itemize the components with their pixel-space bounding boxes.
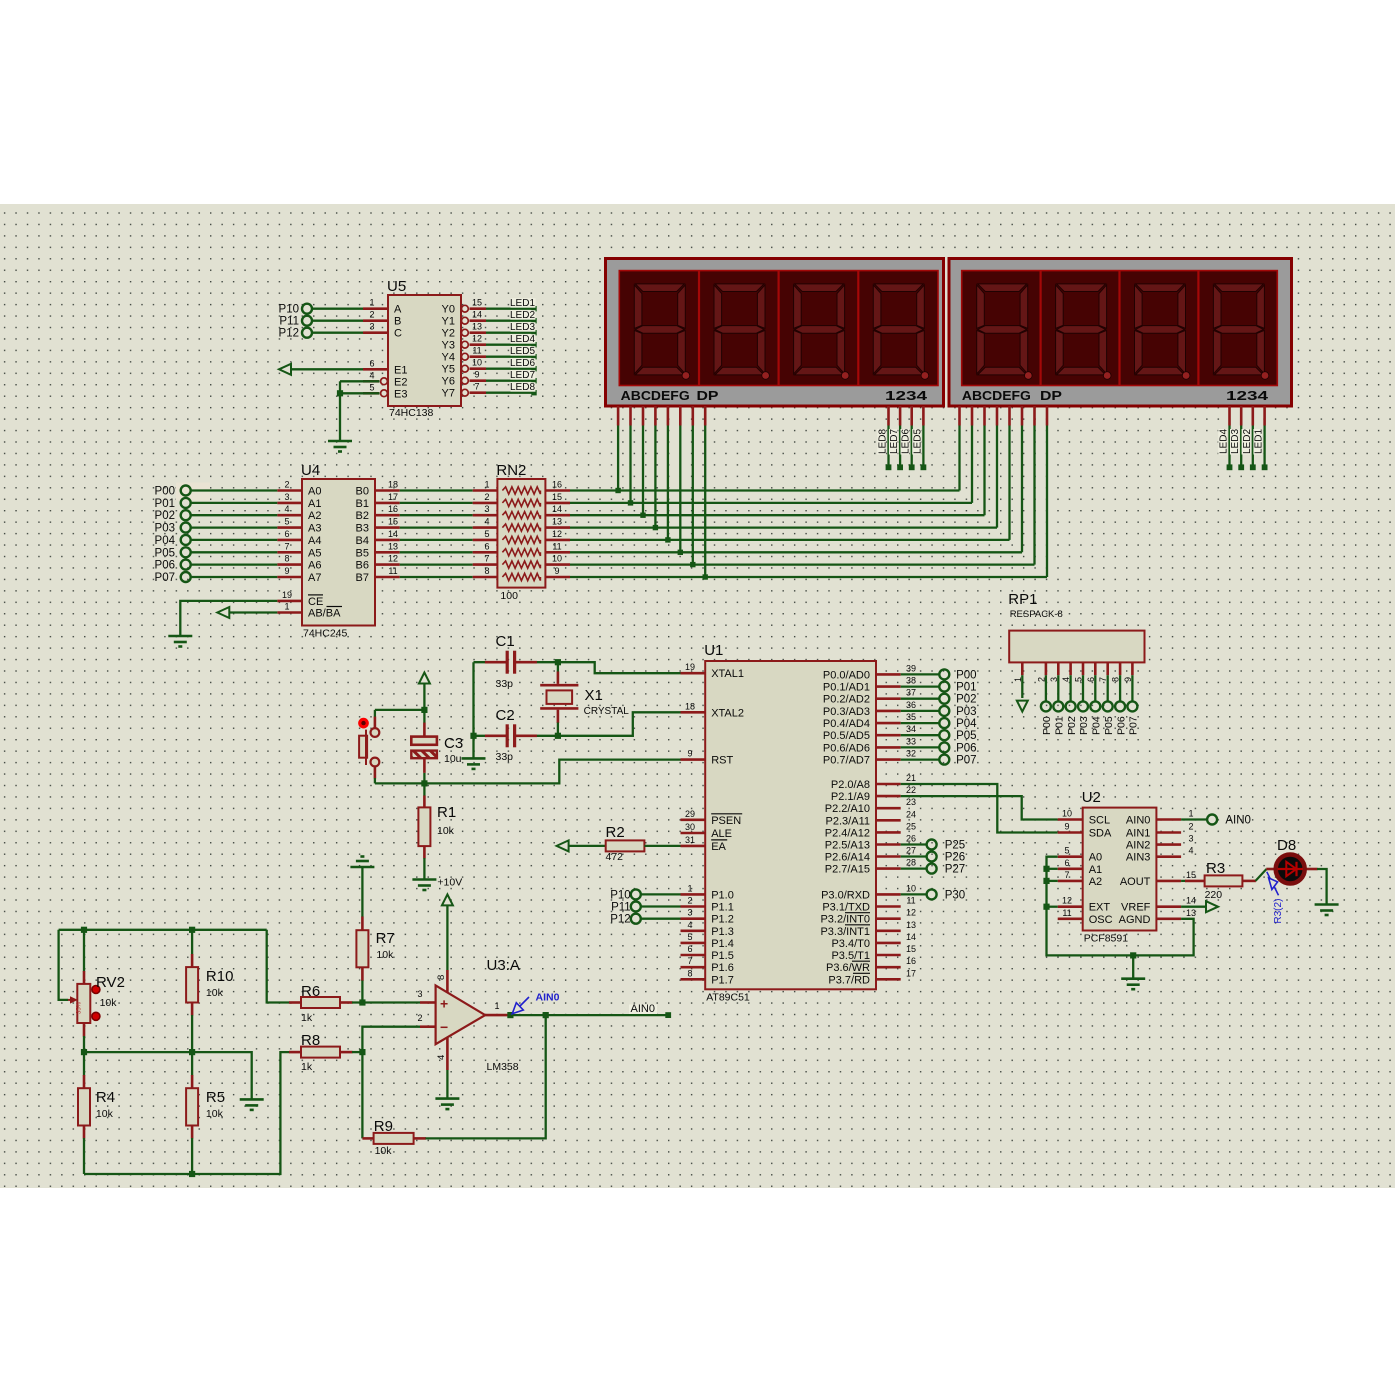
svg-text:P2.2/A10: P2.2/A10 <box>825 803 870 815</box>
svg-text:A2: A2 <box>1089 876 1102 888</box>
svg-text:B3: B3 <box>356 523 369 535</box>
svg-text:35: 35 <box>906 712 916 722</box>
svg-text:P03: P03 <box>1078 716 1090 735</box>
svg-text:6: 6 <box>687 944 692 954</box>
svg-text:P3.0/RXD: P3.0/RXD <box>821 889 870 901</box>
svg-text:P01: P01 <box>155 498 175 510</box>
svg-text:33p: 33p <box>496 678 514 690</box>
svg-text:A7: A7 <box>308 572 321 584</box>
svg-text:10k: 10k <box>206 987 224 999</box>
svg-text:33: 33 <box>906 736 916 746</box>
svg-text:26: 26 <box>906 834 916 844</box>
svg-text:1: 1 <box>284 602 289 612</box>
svg-text:R7: R7 <box>376 930 395 947</box>
svg-text:18: 18 <box>388 480 398 490</box>
svg-text:AIN0: AIN0 <box>631 1003 655 1015</box>
svg-text:P06: P06 <box>956 742 976 754</box>
svg-text:C3: C3 <box>444 735 463 752</box>
svg-text:PSEN: PSEN <box>711 815 741 827</box>
svg-text:P2.7/A15: P2.7/A15 <box>825 864 870 876</box>
svg-text:10k: 10k <box>96 1108 114 1120</box>
svg-text:RP1: RP1 <box>1008 591 1037 608</box>
svg-text:AB/BA: AB/BA <box>308 608 341 620</box>
svg-text:29: 29 <box>685 809 695 819</box>
svg-text:R5: R5 <box>206 1089 225 1106</box>
svg-text:E1: E1 <box>394 364 407 376</box>
svg-text:R1: R1 <box>437 804 456 821</box>
svg-text:P0.0/AD0: P0.0/AD0 <box>823 669 870 681</box>
svg-text:P3.3/INT1: P3.3/INT1 <box>820 926 870 938</box>
svg-text:E2: E2 <box>394 376 407 388</box>
svg-text:P05: P05 <box>956 730 976 742</box>
svg-text:RN2: RN2 <box>496 462 526 479</box>
svg-text:P07: P07 <box>956 755 976 767</box>
svg-text:Y6: Y6 <box>442 376 455 388</box>
svg-text:AIN2: AIN2 <box>1126 840 1150 852</box>
svg-text:14: 14 <box>472 310 482 320</box>
svg-text:P07: P07 <box>1128 716 1140 735</box>
svg-text:P07: P07 <box>155 572 175 584</box>
svg-text:6: 6 <box>369 358 374 368</box>
svg-text:A3: A3 <box>308 523 321 535</box>
svg-text:C2: C2 <box>496 707 515 724</box>
svg-text:13: 13 <box>388 541 398 551</box>
svg-text:P12: P12 <box>279 328 299 340</box>
svg-text:10: 10 <box>472 358 482 368</box>
svg-text:28: 28 <box>906 858 916 868</box>
svg-text:DP: DP <box>1040 388 1062 403</box>
svg-text:P0.1/AD1: P0.1/AD1 <box>823 682 870 694</box>
svg-text:10k: 10k <box>376 949 394 961</box>
svg-text:8: 8 <box>436 975 447 980</box>
svg-text:P27: P27 <box>945 864 965 876</box>
svg-text:3: 3 <box>687 908 692 918</box>
svg-text:R3(2): R3(2) <box>1273 899 1284 924</box>
svg-text:P1.5: P1.5 <box>711 950 734 962</box>
svg-text:7: 7 <box>284 541 289 551</box>
svg-text:9: 9 <box>1064 822 1069 832</box>
svg-text:1234: 1234 <box>885 388 928 403</box>
svg-text:LED1: LED1 <box>510 298 535 309</box>
svg-text:5: 5 <box>284 517 289 527</box>
svg-text:14: 14 <box>1186 896 1196 906</box>
svg-text:U5: U5 <box>387 278 406 295</box>
svg-text:Y2: Y2 <box>442 328 455 340</box>
svg-text:B5: B5 <box>356 547 369 559</box>
svg-text:4: 4 <box>284 504 289 514</box>
svg-text:SCL: SCL <box>1089 815 1110 827</box>
svg-text:LED1: LED1 <box>1254 429 1265 454</box>
svg-text:AIN1: AIN1 <box>1126 828 1150 840</box>
svg-text:P10: P10 <box>279 304 299 316</box>
svg-text:74HC138: 74HC138 <box>389 407 434 419</box>
svg-text:15: 15 <box>906 944 916 954</box>
svg-text:5: 5 <box>687 932 692 942</box>
svg-text:P11: P11 <box>611 902 631 914</box>
svg-text:P04: P04 <box>155 535 176 547</box>
svg-text:P2.6/A14: P2.6/A14 <box>825 852 870 864</box>
svg-text:1k: 1k <box>301 1061 313 1073</box>
svg-text:3: 3 <box>369 322 374 332</box>
svg-text:36: 36 <box>906 700 916 710</box>
svg-text:1: 1 <box>494 1001 499 1011</box>
svg-text:4: 4 <box>436 1055 447 1060</box>
svg-text:LED8: LED8 <box>878 429 889 454</box>
svg-text:P02: P02 <box>1066 716 1078 735</box>
svg-text:R8: R8 <box>301 1032 320 1049</box>
svg-text:10k: 10k <box>100 997 118 1009</box>
svg-text:AIN0: AIN0 <box>1225 815 1251 827</box>
svg-text:AGND: AGND <box>1119 914 1151 926</box>
svg-text:B1: B1 <box>356 498 369 510</box>
svg-text:PCF8591: PCF8591 <box>1084 933 1129 945</box>
svg-text:P00: P00 <box>155 486 175 498</box>
svg-text:21: 21 <box>906 773 916 783</box>
svg-text:32: 32 <box>906 749 916 759</box>
svg-text:8: 8 <box>284 554 289 564</box>
svg-text:12: 12 <box>1062 896 1072 906</box>
svg-text:P04: P04 <box>1091 716 1103 735</box>
svg-text:10: 10 <box>552 554 562 564</box>
svg-text:P11: P11 <box>279 316 299 328</box>
svg-text:B7: B7 <box>356 572 369 584</box>
svg-text:4: 4 <box>369 370 374 380</box>
svg-text:P2.4/A12: P2.4/A12 <box>825 827 870 839</box>
svg-text:13: 13 <box>906 920 916 930</box>
svg-text:12: 12 <box>906 908 916 918</box>
svg-text:4: 4 <box>1188 846 1193 856</box>
svg-text:P1.3: P1.3 <box>711 926 734 938</box>
svg-text:11: 11 <box>1062 908 1071 918</box>
svg-text:10: 10 <box>906 883 916 893</box>
svg-text:P25: P25 <box>945 840 965 852</box>
svg-text:P02: P02 <box>155 510 175 522</box>
svg-text:P2.5/A13: P2.5/A13 <box>825 840 870 852</box>
svg-text:Y1: Y1 <box>442 316 455 328</box>
svg-text:Y0: Y0 <box>442 304 455 316</box>
svg-text:R4: R4 <box>96 1089 115 1106</box>
svg-text:R6: R6 <box>301 983 320 1000</box>
svg-text:EXT: EXT <box>1089 902 1111 914</box>
svg-text:10k: 10k <box>437 825 455 837</box>
svg-text:P0.3/AD3: P0.3/AD3 <box>823 706 870 718</box>
svg-text:16: 16 <box>388 504 398 514</box>
svg-text:P01: P01 <box>956 682 976 694</box>
svg-text:P0.4/AD4: P0.4/AD4 <box>823 718 870 730</box>
svg-text:Y4: Y4 <box>442 352 455 364</box>
svg-text:P2.3/A11: P2.3/A11 <box>826 815 870 827</box>
svg-text:LED3: LED3 <box>1230 429 1241 454</box>
svg-text:13: 13 <box>472 322 482 332</box>
svg-text:A0: A0 <box>1089 852 1102 864</box>
svg-text:1: 1 <box>369 298 374 308</box>
svg-text:R10: R10 <box>206 968 234 985</box>
svg-text:U2: U2 <box>1082 789 1101 806</box>
svg-text:A0: A0 <box>308 486 321 498</box>
svg-text:P1.1: P1.1 <box>711 902 734 914</box>
svg-text:3: 3 <box>417 989 422 999</box>
svg-text:A1: A1 <box>308 498 321 510</box>
svg-text:472: 472 <box>606 851 624 863</box>
svg-text:LED7: LED7 <box>889 429 900 454</box>
svg-text:15: 15 <box>552 492 562 502</box>
svg-text:P1.7: P1.7 <box>711 974 734 986</box>
svg-text:U1: U1 <box>704 642 723 659</box>
svg-text:35%: 35% <box>77 1001 83 1014</box>
svg-text:4: 4 <box>687 920 692 930</box>
svg-text:15: 15 <box>388 517 398 527</box>
svg-text:XTAL2: XTAL2 <box>711 707 744 719</box>
svg-text:11: 11 <box>552 541 561 551</box>
svg-text:AT89C51: AT89C51 <box>706 992 750 1004</box>
svg-text:7: 7 <box>474 382 479 392</box>
svg-text:2: 2 <box>369 310 374 320</box>
svg-text:11: 11 <box>388 566 397 576</box>
svg-text:P3.1/TXD: P3.1/TXD <box>822 902 870 914</box>
svg-text:+10V: +10V <box>437 877 462 889</box>
svg-text:17: 17 <box>388 492 398 502</box>
svg-text:LED6: LED6 <box>510 358 535 369</box>
svg-text:LED7: LED7 <box>510 370 535 381</box>
svg-text:LM358: LM358 <box>487 1061 519 1073</box>
svg-text:220: 220 <box>1205 889 1223 901</box>
svg-text:3: 3 <box>1188 834 1193 844</box>
svg-text:LED4: LED4 <box>510 334 535 345</box>
svg-text:P03: P03 <box>155 523 175 535</box>
svg-text:22: 22 <box>906 785 916 795</box>
svg-text:P0.5/AD5: P0.5/AD5 <box>823 730 870 742</box>
svg-text:LED2: LED2 <box>510 310 535 321</box>
svg-text:P3.2/INT0: P3.2/INT0 <box>820 914 870 926</box>
svg-text:5: 5 <box>1064 846 1069 856</box>
svg-text:16: 16 <box>552 480 562 490</box>
svg-text:AOUT: AOUT <box>1120 876 1151 888</box>
svg-text:E3: E3 <box>394 388 407 400</box>
svg-text:27: 27 <box>906 846 916 856</box>
svg-text:LED3: LED3 <box>510 322 535 333</box>
svg-text:2: 2 <box>417 1013 422 1023</box>
svg-text:A5: A5 <box>308 547 321 559</box>
svg-text:RESPACK-8: RESPACK-8 <box>1010 609 1063 620</box>
svg-text:10: 10 <box>1062 809 1072 819</box>
svg-text:LED4: LED4 <box>1219 429 1230 454</box>
svg-text:P05: P05 <box>1103 716 1115 735</box>
svg-text:VREF: VREF <box>1121 902 1151 914</box>
svg-text:23: 23 <box>906 797 916 807</box>
svg-text:+: + <box>440 996 448 1012</box>
svg-text:Y7: Y7 <box>442 388 455 400</box>
svg-text:13: 13 <box>1186 908 1196 918</box>
svg-text:74HC245: 74HC245 <box>303 628 348 640</box>
svg-text:U3:A: U3:A <box>487 957 520 974</box>
svg-text:P3.4/T0: P3.4/T0 <box>831 938 870 950</box>
svg-text:6: 6 <box>284 529 289 539</box>
svg-text:12: 12 <box>552 529 562 539</box>
svg-text:P06: P06 <box>155 560 175 572</box>
svg-text:P2.0/A8: P2.0/A8 <box>831 779 870 791</box>
svg-text:R9: R9 <box>374 1118 393 1135</box>
svg-text:1234: 1234 <box>1226 388 1269 403</box>
svg-text:ALE: ALE <box>711 828 732 840</box>
svg-text:AIN0: AIN0 <box>536 992 560 1004</box>
svg-text:P3.5/T1: P3.5/T1 <box>831 950 870 962</box>
svg-text:LED8: LED8 <box>510 382 535 393</box>
svg-text:16: 16 <box>906 956 916 966</box>
svg-text:Y5: Y5 <box>442 364 455 376</box>
svg-text:P10: P10 <box>610 889 630 901</box>
svg-text:AIN0: AIN0 <box>1126 815 1150 827</box>
svg-text:14: 14 <box>552 504 562 514</box>
svg-text:P01: P01 <box>1054 716 1066 735</box>
svg-text:12: 12 <box>388 554 398 564</box>
svg-text:1: 1 <box>687 883 692 893</box>
svg-text:38: 38 <box>906 676 916 686</box>
svg-text:DP: DP <box>697 388 719 403</box>
svg-text:4: 4 <box>484 517 489 527</box>
svg-text:6: 6 <box>484 541 489 551</box>
svg-text:P2.1/A9: P2.1/A9 <box>831 791 870 803</box>
svg-text:P1.0: P1.0 <box>711 889 734 901</box>
svg-text:CE: CE <box>308 596 323 608</box>
svg-text:P00: P00 <box>956 669 976 681</box>
svg-text:SDA: SDA <box>1089 828 1112 840</box>
svg-text:6: 6 <box>1064 858 1069 868</box>
svg-text:31: 31 <box>685 835 695 845</box>
svg-text:11: 11 <box>906 896 915 906</box>
svg-text:25: 25 <box>906 821 916 831</box>
svg-text:C: C <box>394 328 402 340</box>
svg-text:AIN3: AIN3 <box>1126 852 1150 864</box>
svg-text:15: 15 <box>472 298 482 308</box>
svg-text:ABCDEFG: ABCDEFG <box>962 388 1031 403</box>
svg-text:14: 14 <box>388 529 398 539</box>
svg-text:R3: R3 <box>1206 860 1225 877</box>
svg-text:10k: 10k <box>375 1145 393 1157</box>
svg-text:39: 39 <box>906 663 916 673</box>
svg-text:3: 3 <box>284 492 289 502</box>
svg-text:9: 9 <box>474 370 479 380</box>
svg-text:A6: A6 <box>308 560 321 572</box>
svg-text:P3.6/WR: P3.6/WR <box>826 962 870 974</box>
svg-text:17: 17 <box>906 968 916 978</box>
svg-text:A4: A4 <box>308 535 321 547</box>
svg-text:18: 18 <box>685 701 695 711</box>
svg-text:10u: 10u <box>444 753 462 765</box>
svg-text:8: 8 <box>687 968 692 978</box>
svg-text:P00: P00 <box>1041 716 1053 735</box>
svg-text:X1: X1 <box>585 687 603 704</box>
svg-text:19: 19 <box>282 590 292 600</box>
svg-text:ABCDEFG: ABCDEFG <box>621 388 690 403</box>
svg-text:1k: 1k <box>301 1012 313 1024</box>
svg-text:9: 9 <box>554 566 559 576</box>
svg-text:D8: D8 <box>1277 837 1296 854</box>
svg-text:7: 7 <box>687 956 692 966</box>
svg-text:P12: P12 <box>610 914 630 926</box>
svg-text:7: 7 <box>484 554 489 564</box>
svg-text:OSC: OSC <box>1089 914 1113 926</box>
svg-text:30: 30 <box>685 822 695 832</box>
svg-text:P0.7/AD7: P0.7/AD7 <box>823 755 870 767</box>
svg-text:P0.6/AD6: P0.6/AD6 <box>823 742 870 754</box>
svg-text:5: 5 <box>484 529 489 539</box>
svg-text:LED5: LED5 <box>510 346 535 357</box>
svg-text:B0: B0 <box>356 486 369 498</box>
svg-text:RV2: RV2 <box>96 974 125 991</box>
svg-text:U4: U4 <box>301 462 320 479</box>
svg-text:XTAL1: XTAL1 <box>711 668 744 680</box>
svg-text:C1: C1 <box>496 633 515 650</box>
svg-text:19: 19 <box>685 662 695 672</box>
svg-text:P1.4: P1.4 <box>711 938 734 950</box>
svg-text:P1.2: P1.2 <box>711 914 734 926</box>
svg-text:7: 7 <box>1064 870 1069 880</box>
svg-text:B: B <box>394 316 401 328</box>
svg-text:2: 2 <box>484 492 489 502</box>
svg-text:P04: P04 <box>956 718 977 730</box>
svg-text:P3.7/RD: P3.7/RD <box>828 974 870 986</box>
svg-text:A: A <box>394 304 402 316</box>
svg-text:14: 14 <box>906 932 916 942</box>
svg-text:3: 3 <box>484 504 489 514</box>
svg-text:13: 13 <box>552 517 562 527</box>
svg-text:9: 9 <box>284 566 289 576</box>
svg-text:1: 1 <box>484 480 489 490</box>
svg-text:P30: P30 <box>945 889 965 901</box>
svg-text:5: 5 <box>369 382 374 392</box>
svg-text:10k: 10k <box>206 1108 224 1120</box>
svg-text:P1.6: P1.6 <box>711 962 734 974</box>
svg-text:12: 12 <box>472 334 482 344</box>
svg-text:2: 2 <box>284 480 289 490</box>
svg-text:2: 2 <box>687 896 692 906</box>
svg-text:−: − <box>440 1019 448 1035</box>
svg-text:CRYSTAL: CRYSTAL <box>584 706 630 717</box>
svg-text:P0.2/AD2: P0.2/AD2 <box>823 694 870 706</box>
svg-text:P02: P02 <box>956 694 976 706</box>
svg-text:B4: B4 <box>356 535 369 547</box>
svg-text:EA: EA <box>711 841 726 853</box>
svg-text:B2: B2 <box>356 510 369 522</box>
svg-text:A1: A1 <box>1089 864 1102 876</box>
svg-text:LED2: LED2 <box>1242 429 1253 454</box>
svg-text:LED6: LED6 <box>901 429 912 454</box>
svg-text:1: 1 <box>1188 809 1193 819</box>
svg-text:B6: B6 <box>356 560 369 572</box>
svg-text:100: 100 <box>500 590 518 602</box>
svg-text:R2: R2 <box>606 824 625 841</box>
svg-text:A2: A2 <box>308 510 321 522</box>
svg-text:2: 2 <box>1188 822 1193 832</box>
svg-text:P26: P26 <box>945 852 965 864</box>
svg-text:P06: P06 <box>1115 716 1127 735</box>
svg-text:RST: RST <box>711 755 733 767</box>
svg-text:8: 8 <box>484 566 489 576</box>
svg-text:11: 11 <box>472 346 481 356</box>
svg-text:24: 24 <box>906 809 916 819</box>
svg-text:LED5: LED5 <box>912 429 923 454</box>
svg-text:37: 37 <box>906 688 916 698</box>
svg-text:Y3: Y3 <box>442 340 455 352</box>
svg-text:15: 15 <box>1186 870 1196 880</box>
svg-text:P05: P05 <box>155 547 175 559</box>
svg-text:33p: 33p <box>496 751 514 763</box>
svg-text:9: 9 <box>687 749 692 759</box>
svg-text:P03: P03 <box>956 706 976 718</box>
svg-text:34: 34 <box>906 724 916 734</box>
